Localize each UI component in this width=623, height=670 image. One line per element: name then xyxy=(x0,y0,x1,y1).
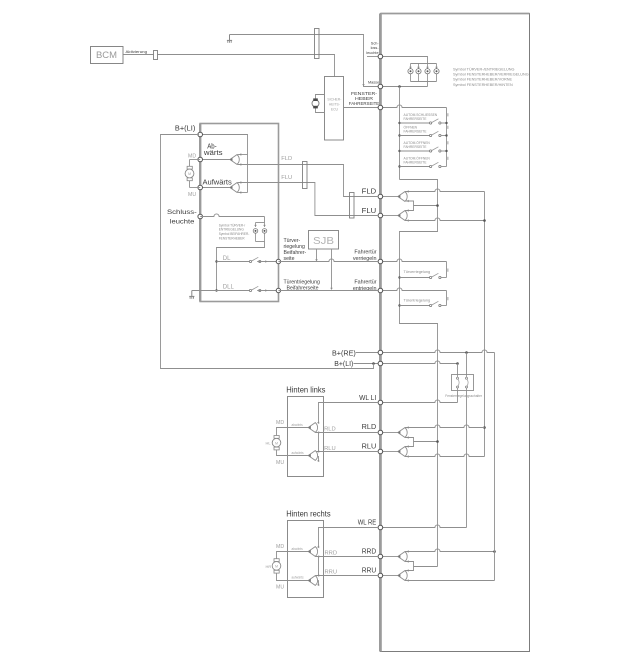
wire MU rear left xyxy=(287,455,308,457)
switch arrow rear right down xyxy=(308,547,317,557)
svg-text:Sch-: Sch- xyxy=(371,41,380,45)
indicator lamp x=410.5 xyxy=(410,64,412,69)
wire FLD from box xyxy=(238,164,279,166)
detent mark S4 xyxy=(447,157,449,160)
svg-text:ENTRIEGELUNG: ENTRIEGELUNG xyxy=(219,228,245,232)
switch arrow Abwaerts xyxy=(230,155,239,165)
wire RLU out xyxy=(315,451,378,453)
wire WL LI into box xyxy=(319,403,379,423)
wire pin3 to switch bus xyxy=(383,105,447,108)
lock switch contact x=466.5 xyxy=(466,374,468,377)
detent mark S3 xyxy=(447,141,449,144)
svg-text:Masse: Masse xyxy=(368,80,379,84)
switch DLL xyxy=(192,290,250,292)
svg-text:MD: MD xyxy=(188,153,196,159)
BCM module box xyxy=(91,47,124,64)
svg-text:aufwärts: aufwärts xyxy=(292,575,304,579)
SJB stub 1 xyxy=(316,249,318,260)
svg-text:Symbol FENSTERHEBER/VORNE: Symbol FENSTERHEBER/VORNE xyxy=(453,78,513,82)
svg-text:RLU: RLU xyxy=(324,446,336,452)
net switch R to WL RE xyxy=(466,390,468,527)
window lock switch box Fensterriegelungsschalter xyxy=(457,364,459,375)
RRU bottom line to net D xyxy=(405,580,495,582)
pin DL right edge xyxy=(276,259,280,263)
detent mark S1 xyxy=(447,113,449,116)
svg-text:Symbol TÜRVER-/: Symbol TÜRVER-/ xyxy=(219,223,246,227)
pin RLU xyxy=(378,449,383,454)
svg-text:wärts: wärts xyxy=(203,150,223,157)
net C vertical xyxy=(484,192,486,457)
pin WL RE xyxy=(378,525,383,530)
wire Fahrertuer entriegeln xyxy=(383,288,447,291)
svg-text:loss-: loss- xyxy=(371,46,380,50)
svg-text:Aktivierung: Aktivierung xyxy=(126,49,148,54)
pin Fahrertuer verriegeln xyxy=(378,259,383,264)
pin WL LI xyxy=(378,400,383,405)
wire MU xyxy=(200,187,230,189)
long wire B+ front to B+(LI) xyxy=(161,135,374,369)
svg-text:B+(LI): B+(LI) xyxy=(175,123,196,132)
wire RRD out xyxy=(315,556,378,558)
detent mark S2 xyxy=(447,126,449,129)
wire MD rear left xyxy=(287,427,308,429)
pin Masse xyxy=(378,84,383,89)
svg-text:MU: MU xyxy=(276,584,284,590)
svg-text:Fahrertür: Fahrertür xyxy=(354,279,376,285)
wire door unlock to unit xyxy=(278,290,378,292)
FLD/FLU middle link to V1 xyxy=(405,201,414,211)
connector CN3 xyxy=(350,193,355,219)
svg-text:MD: MD xyxy=(276,544,284,550)
wire WL LI right part xyxy=(383,400,458,403)
svg-text:Beifahrer-: Beifahrer- xyxy=(284,250,307,256)
svg-text:SICHER-: SICHER- xyxy=(327,98,341,102)
switch S2 ÖFFNEN FAHRERSEITE xyxy=(398,134,400,136)
svg-text:MU: MU xyxy=(276,460,284,466)
wire ECU to window-lifter unit pin xyxy=(344,107,378,109)
relay driver RLU arrow xyxy=(383,451,398,453)
pin FLU xyxy=(378,213,383,218)
indicator BZ1 on ECU xyxy=(316,95,325,100)
lamp group return to Masse wire xyxy=(427,82,429,87)
svg-text:Türverriegelung: Türverriegelung xyxy=(404,270,431,274)
pin RLD xyxy=(378,430,383,435)
FLU bottom line to net C xyxy=(405,218,485,221)
wire MD xyxy=(200,159,230,161)
lock switch contact x=457.5 xyxy=(457,374,459,377)
wire FLU from box xyxy=(238,182,279,184)
wire MU rear right xyxy=(287,580,308,582)
svg-text:M: M xyxy=(188,172,191,176)
wire RRU out xyxy=(315,575,378,577)
svg-text:Schluss-: Schluss- xyxy=(167,209,197,216)
switch DL xyxy=(217,261,250,263)
RRD/RRU middle link to V1 end xyxy=(405,562,414,571)
passenger window switch box xyxy=(200,124,278,302)
driver window lifter unit box xyxy=(380,14,529,652)
relay driver FLD arrow xyxy=(383,196,398,198)
switch Tuerverriegelung xyxy=(398,276,400,278)
svg-text:SJB: SJB xyxy=(313,236,334,247)
RLD top line to net C xyxy=(405,425,485,428)
pin RRD xyxy=(378,554,383,559)
svg-text:ECU: ECU xyxy=(331,108,339,112)
svg-text:Symbol BEIFAHRER-: Symbol BEIFAHRER- xyxy=(219,232,250,236)
wire Schlossleuchte to lamp group xyxy=(383,57,428,64)
FLD top line to net C xyxy=(405,189,485,192)
wire Masse xyxy=(383,86,428,88)
wire B+(RE) to net D xyxy=(356,352,378,354)
lamp return to DL/DLL feed xyxy=(217,242,265,291)
motor HR xyxy=(277,552,288,562)
svg-text:abwärts: abwärts xyxy=(292,423,304,427)
svg-text:M: M xyxy=(275,565,278,569)
pin B+(LI) front box xyxy=(198,132,203,137)
svg-text:B+(LI): B+(LI) xyxy=(334,359,353,368)
svg-text:aufwärts: aufwärts xyxy=(292,451,304,455)
wire WL RE into box xyxy=(319,528,379,548)
wire B+(LI) xyxy=(354,363,379,365)
svg-text:WL RE: WL RE xyxy=(358,518,377,527)
svg-text:Türentriegelung: Türentriegelung xyxy=(404,299,431,303)
switch S4 AUTOM.ÖFFNEN FAHRERSEITE xyxy=(398,165,400,167)
svg-text:HR: HR xyxy=(266,564,272,569)
svg-text:FAHRERSEITE: FAHRERSEITE xyxy=(404,161,428,165)
wire door lock to unit xyxy=(278,259,378,262)
svg-text:MD: MD xyxy=(276,420,284,426)
svg-text:M: M xyxy=(275,441,278,445)
pin B+(RE) xyxy=(378,350,383,355)
wire RLD out xyxy=(315,432,378,434)
switch S3 AUTOM.ÖFFNEN FAHRERSEITE xyxy=(398,150,400,152)
svg-text:HL: HL xyxy=(266,441,272,446)
svg-text:riegelung: riegelung xyxy=(284,244,305,250)
motor M front passenger xyxy=(190,159,201,161)
pin MU front xyxy=(198,185,203,190)
svg-text:Türentriegelung: Türentriegelung xyxy=(284,279,320,285)
wire Fahrertuer verriegeln xyxy=(383,259,447,262)
svg-text:RRU: RRU xyxy=(325,570,338,576)
relay driver RRD arrow xyxy=(383,556,398,558)
svg-text:FAHRERSEITE: FAHRERSEITE xyxy=(404,117,428,121)
switch S1 AUTOM.SCHLIESSEN FAHRERSEITE xyxy=(398,122,400,124)
pin 3 xyxy=(378,105,383,110)
net switch L to WL LI xyxy=(457,390,459,402)
indicator lamp x=436.5 xyxy=(436,64,438,69)
connector CN1 xyxy=(315,29,320,59)
net D vertical xyxy=(494,353,496,581)
svg-text:MU: MU xyxy=(188,192,196,198)
ground G1 top xyxy=(229,35,231,41)
ground G2 front box xyxy=(191,291,193,297)
switch arrow rear left down xyxy=(308,423,317,433)
inline connector on BCM wire xyxy=(154,51,158,60)
RLU bottom line to net C xyxy=(405,454,485,457)
svg-text:BCM: BCM xyxy=(96,50,117,61)
svg-text:Symbol TÜRVER-/ENTRIEGELUNG: Symbol TÜRVER-/ENTRIEGELUNG xyxy=(453,68,515,72)
switch arrow rear right up xyxy=(308,576,317,586)
rear right door box xyxy=(288,521,324,598)
svg-text:RLU: RLU xyxy=(362,442,377,451)
switch Tuerentriegelung xyxy=(398,304,400,306)
svg-text:FLU: FLU xyxy=(281,175,292,181)
rear right bus xyxy=(318,557,320,576)
RLD/RLU middle link to V1 xyxy=(405,438,414,447)
safety ECU box SICHER-HEITS-ECU xyxy=(325,77,344,141)
svg-text:FAHRERSEITE: FAHRERSEITE xyxy=(349,101,380,106)
svg-text:FAHRERSEITE: FAHRERSEITE xyxy=(404,130,428,134)
svg-text:FLU: FLU xyxy=(362,206,377,215)
pin DLL right edge xyxy=(276,288,280,292)
svg-text:Symbol FENSTERHEBER/VERRIEGELU: Symbol FENSTERHEBER/VERRIEGELUNG xyxy=(453,73,529,77)
svg-text:B+(RE): B+(RE) xyxy=(332,348,356,357)
svg-text:Türver-: Türver- xyxy=(284,238,301,244)
indicator lamp x=427.5 xyxy=(427,64,429,69)
pin MD front xyxy=(198,157,203,162)
wire ground to Masse pin xyxy=(230,35,380,87)
wire B+ feed inside box xyxy=(200,135,247,193)
svg-text:Aufwärts: Aufwärts xyxy=(203,180,233,187)
svg-text:FENSTERHEBER: FENSTERHEBER xyxy=(219,237,246,241)
relay driver RRU arrow xyxy=(383,575,398,577)
SJB box xyxy=(309,231,339,250)
svg-text:leuchte: leuchte xyxy=(366,51,378,55)
pin B+(LI) xyxy=(378,361,383,366)
svg-text:FLD: FLD xyxy=(281,156,292,162)
SJB stub 2 xyxy=(331,249,333,288)
pin Schlossleuchte xyxy=(378,54,383,59)
wire MD rear right xyxy=(287,551,308,553)
wire Schlussleuchte to lamps xyxy=(200,214,264,217)
pin Schlussleuchte front xyxy=(198,214,203,219)
svg-text:FAHRERSEITE: FAHRERSEITE xyxy=(404,145,428,149)
svg-text:leuchte: leuchte xyxy=(170,219,195,226)
rear left bus xyxy=(318,433,320,452)
svg-text:Fensterriegelungsschalter: Fensterriegelungsschalter xyxy=(445,394,482,398)
connector CN2 xyxy=(303,162,308,189)
wire FLU link xyxy=(278,183,378,216)
relay driver FLU arrow xyxy=(383,215,398,217)
svg-text:Fahrertür: Fahrertür xyxy=(354,250,376,256)
lamp pair buses xyxy=(256,222,265,224)
pin FLD xyxy=(378,194,383,199)
svg-text:RRD: RRD xyxy=(362,546,377,555)
rear left door box xyxy=(288,397,324,477)
svg-text:RLD: RLD xyxy=(362,422,377,431)
net V1 from Masse junction down xyxy=(399,87,401,180)
net V1 jog right and down xyxy=(400,180,438,567)
stub wire at Schlossleuchte pin xyxy=(367,56,378,58)
indicator lamp x=418.5 xyxy=(418,64,420,69)
svg-text:Symbol FENSTERHEBER/HINTEN: Symbol FENSTERHEBER/HINTEN xyxy=(453,83,513,87)
wire BCM to safety ECU xyxy=(124,55,335,77)
svg-text:Hinten links: Hinten links xyxy=(286,384,325,394)
wire WL RE right part xyxy=(383,525,467,528)
svg-text:WL LI: WL LI xyxy=(359,393,376,402)
lamp front x=255.5 xyxy=(255,223,257,227)
switch arrow Aufwaerts xyxy=(230,183,239,193)
lamp group buses xyxy=(411,63,437,65)
svg-text:RRU: RRU xyxy=(362,566,377,575)
pin Fahrertuer entriegeln xyxy=(378,288,383,293)
svg-text:RRD: RRD xyxy=(325,550,338,556)
svg-text:FLD: FLD xyxy=(362,186,377,195)
lamp front x=264.5 xyxy=(264,223,266,227)
svg-text:abwärts: abwärts xyxy=(292,547,304,551)
wire FLD link xyxy=(278,165,378,197)
pin RRU xyxy=(378,573,383,578)
svg-text:RLD: RLD xyxy=(324,426,336,432)
relay driver RLD arrow xyxy=(383,432,398,434)
svg-text:DLL: DLL xyxy=(223,284,235,290)
RRD top line to net D xyxy=(405,549,495,552)
svg-text:Hinten rechts: Hinten rechts xyxy=(286,508,330,518)
motor HL xyxy=(277,428,288,439)
svg-text:HEITS-: HEITS- xyxy=(329,103,340,107)
switch arrow rear left up xyxy=(308,451,317,461)
